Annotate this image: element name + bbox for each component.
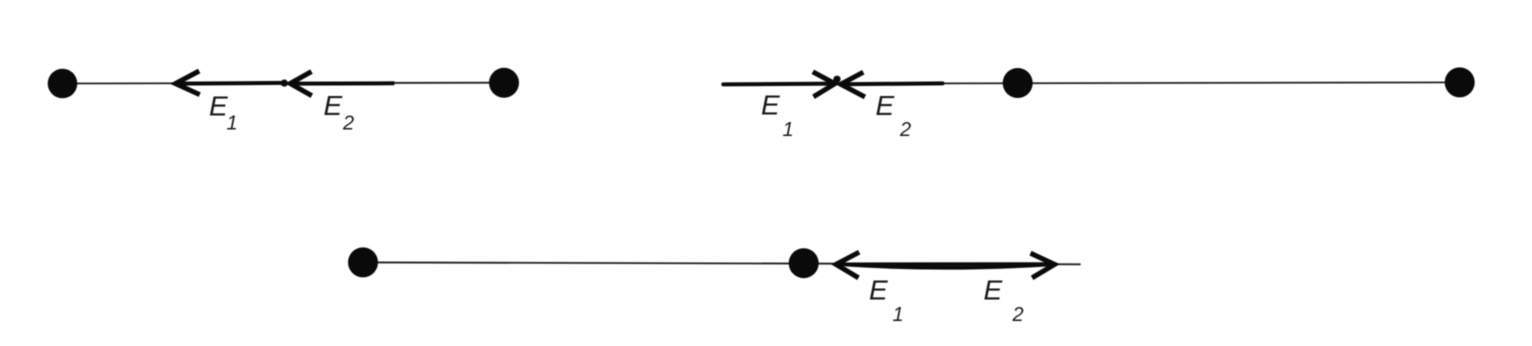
- vector E1 shaft (points right): [723, 82, 834, 87]
- vector E1 shaft: [178, 81, 285, 86]
- charge dot left: [348, 247, 378, 277]
- vector E2 arrowhead: [290, 72, 312, 96]
- wire q1-q2 extended: [363, 262, 1081, 264]
- vector E2 shaft: [292, 81, 394, 85]
- charge dot right: [1445, 67, 1475, 97]
- midpoint dot: [281, 80, 288, 87]
- vector E1 shaft (points left): [837, 262, 1048, 266]
- wire q1-q2: [63, 82, 505, 85]
- wire to charges: [944, 82, 1460, 83]
- charge dot middle: [1003, 68, 1033, 98]
- svg-text:1: 1: [227, 112, 238, 134]
- vector E2 arrowhead: [841, 72, 865, 97]
- svg-text:E: E: [984, 274, 1003, 305]
- midpoint dot: [833, 76, 840, 83]
- vector E2 shaft (points left): [840, 81, 942, 86]
- vector E1 arrowhead: [836, 252, 859, 278]
- charge dot left: [48, 69, 78, 99]
- charge dot right: [489, 68, 519, 98]
- svg-text:2: 2: [342, 112, 354, 134]
- svg-text:E: E: [761, 89, 780, 120]
- svg-text:2: 2: [899, 119, 911, 141]
- svg-text:E: E: [209, 90, 228, 121]
- vector E2 arrowhead: [1031, 253, 1055, 278]
- vector E2 shaft (points right, slight bow): [845, 264, 1053, 268]
- svg-text:E: E: [876, 90, 895, 121]
- svg-text:2: 2: [1012, 304, 1024, 326]
- svg-text:1: 1: [783, 119, 794, 141]
- vector E1 arrowhead: [176, 71, 200, 95]
- svg-text:E: E: [869, 274, 888, 305]
- charge dot right: [789, 248, 819, 278]
- vector E1 arrowhead: [813, 72, 835, 97]
- svg-text:1: 1: [893, 304, 904, 326]
- svg-text:E: E: [324, 90, 343, 121]
